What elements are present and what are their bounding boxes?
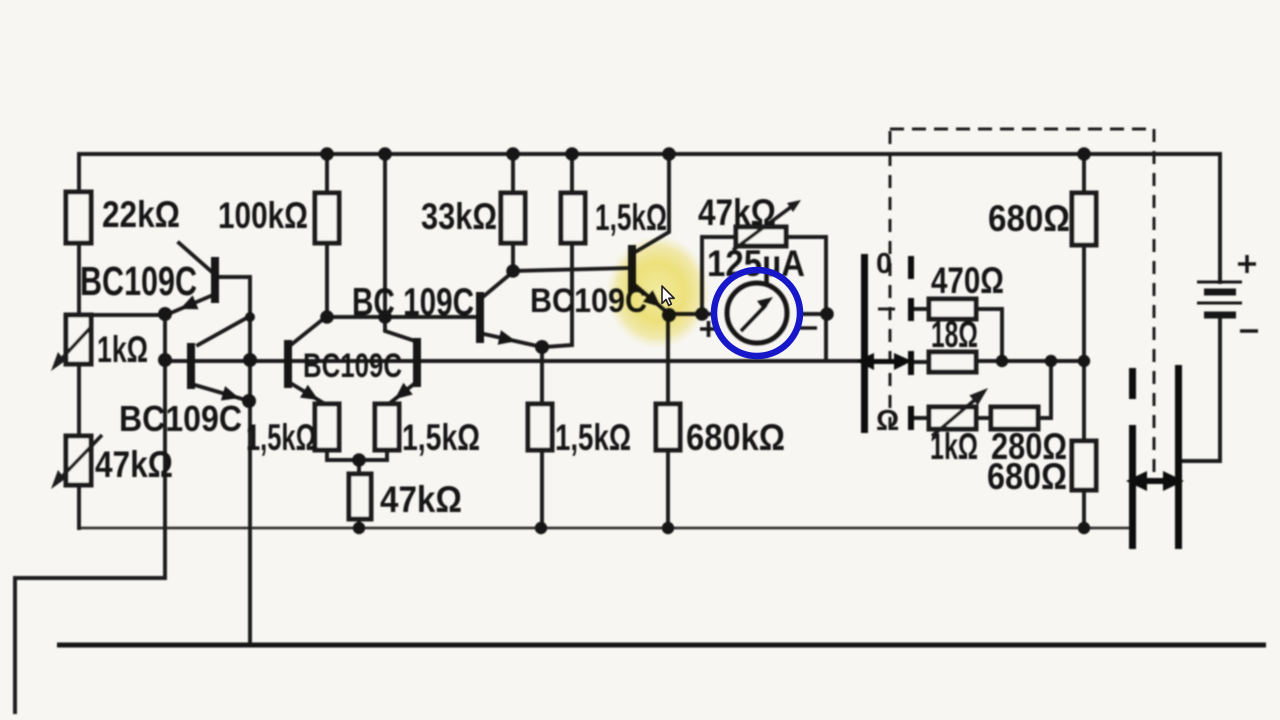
svg-text:470Ω: 470Ω bbox=[931, 260, 1004, 301]
svg-text:33kΩ: 33kΩ bbox=[421, 196, 497, 237]
svg-text:47kΩ: 47kΩ bbox=[380, 479, 462, 520]
svg-text:680Ω: 680Ω bbox=[988, 198, 1070, 239]
svg-text:680Ω: 680Ω bbox=[987, 456, 1067, 497]
svg-text:BC109C: BC109C bbox=[80, 258, 197, 304]
svg-text:1,5kΩ: 1,5kΩ bbox=[595, 197, 667, 238]
svg-text:1,5kΩ: 1,5kΩ bbox=[555, 417, 631, 458]
svg-text:BC109C: BC109C bbox=[119, 398, 242, 439]
svg-text:1kΩ: 1kΩ bbox=[930, 426, 978, 467]
svg-text:100kΩ: 100kΩ bbox=[218, 195, 308, 236]
svg-text:47kΩ: 47kΩ bbox=[698, 192, 776, 233]
svg-text:125µA: 125µA bbox=[707, 243, 805, 284]
svg-text:0: 0 bbox=[876, 248, 892, 280]
svg-text:1,5kΩ: 1,5kΩ bbox=[246, 417, 316, 458]
svg-text:Ω: Ω bbox=[876, 405, 899, 437]
svg-text:1,5kΩ: 1,5kΩ bbox=[402, 417, 480, 458]
svg-text:47kΩ: 47kΩ bbox=[95, 444, 173, 485]
svg-text:22kΩ: 22kΩ bbox=[102, 194, 180, 235]
svg-text:BC 109C: BC 109C bbox=[352, 281, 474, 324]
svg-text:1kΩ: 1kΩ bbox=[97, 329, 148, 370]
svg-text:680kΩ: 680kΩ bbox=[686, 417, 785, 458]
svg-text:18Ω: 18Ω bbox=[931, 314, 978, 355]
svg-text:BC109C: BC109C bbox=[303, 347, 402, 385]
